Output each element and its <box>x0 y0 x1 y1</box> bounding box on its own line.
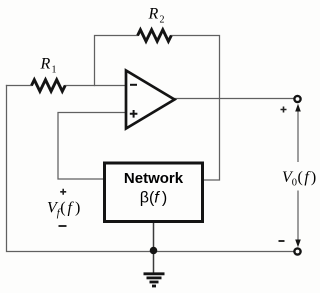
svg-text:V0(f): V0(f) <box>282 169 316 189</box>
svg-text:Network: Network <box>124 170 184 187</box>
svg-text:β(f ): β(f ) <box>140 190 168 207</box>
svg-text:R: R <box>40 56 51 73</box>
svg-text:1: 1 <box>52 65 57 76</box>
svg-text:R: R <box>148 6 159 23</box>
svg-text:Vf(f): Vf(f) <box>47 200 80 220</box>
svg-text:2: 2 <box>160 15 165 26</box>
